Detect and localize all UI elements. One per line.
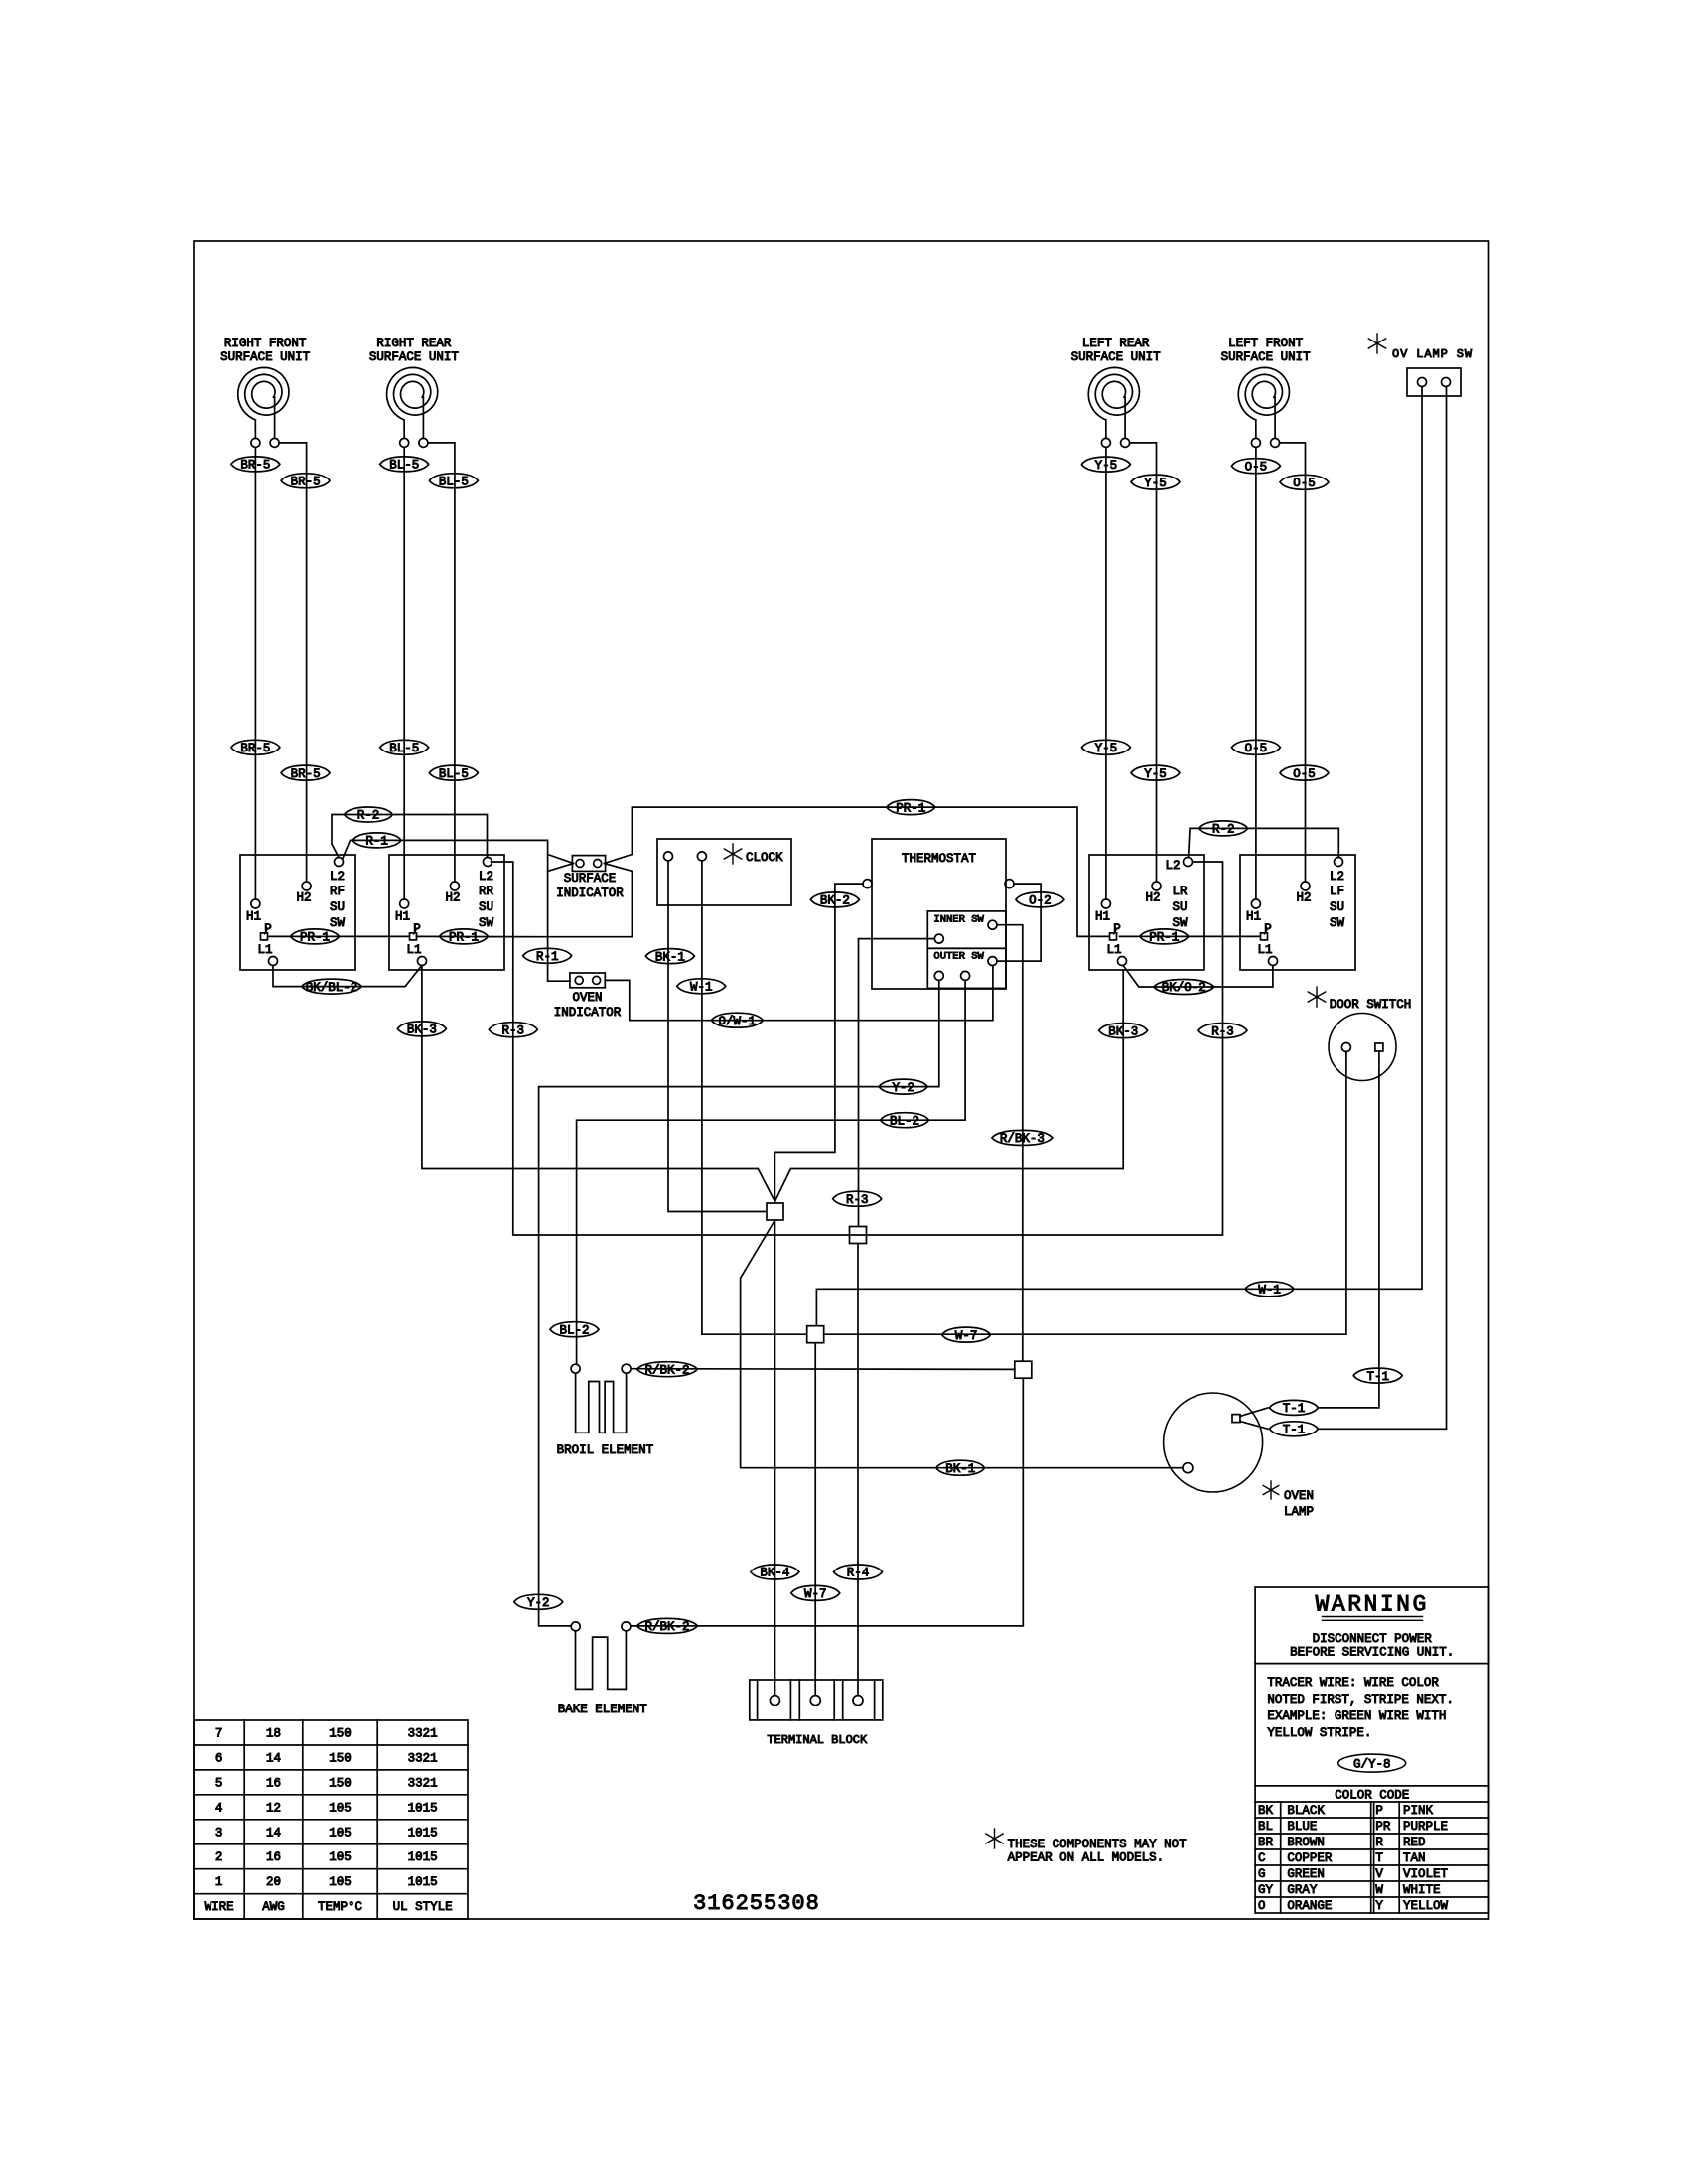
svg-text:12: 12 [266, 1801, 281, 1815]
svg-text:OVEN: OVEN [1284, 1489, 1314, 1503]
wire BK-1 (clock to junction) [668, 861, 767, 1212]
svg-text:R-2: R-2 [357, 809, 380, 823]
wire PR-1 across LR to LF [1120, 935, 1261, 937]
switch box RF [240, 855, 355, 970]
terminal L1 [1269, 957, 1278, 966]
wire R/BK-2 (bake to junction sq4) [631, 1378, 1023, 1626]
wire BR-5 left [254, 447, 256, 898]
tag O-5 [1280, 765, 1329, 780]
wire T-1 from OV LAMP SW [1320, 387, 1447, 1430]
BL-5 surface unit coil [387, 367, 438, 420]
svg-text:THERMOSTAT: THERMOSTAT [902, 852, 977, 866]
svg-text:LF: LF [1330, 885, 1344, 898]
svg-text:BLACK: BLACK [1287, 1804, 1325, 1818]
terminal H2 [302, 882, 311, 890]
svg-text:RED: RED [1403, 1836, 1426, 1849]
wire BL-5 left [403, 447, 405, 898]
svg-text:16: 16 [266, 1776, 281, 1790]
svg-text:105: 105 [329, 1801, 352, 1815]
tag Y-5 [1081, 457, 1130, 472]
svg-text:P: P [1264, 922, 1272, 936]
door switch [1329, 1014, 1396, 1081]
OV LAMP SW asterisk [1376, 334, 1378, 353]
svg-text:150: 150 [329, 1776, 352, 1790]
svg-text:SURFACE: SURFACE [564, 872, 617, 886]
svg-text:Y: Y [1375, 1899, 1383, 1913]
terminal P [410, 933, 417, 940]
svg-text:R-3: R-3 [846, 1193, 869, 1207]
oven indicator lamp [570, 973, 605, 988]
svg-text:P: P [264, 922, 272, 936]
svg-text:R/BK-2: R/BK-2 [644, 1363, 689, 1377]
svg-text:L2: L2 [1330, 870, 1344, 884]
svg-text:SURFACE UNIT: SURFACE UNIT [220, 350, 311, 364]
svg-text:H1: H1 [1095, 910, 1110, 924]
tag PR-1 [440, 929, 489, 944]
tag BL-5 [429, 474, 478, 488]
tag R-4 [834, 1565, 883, 1579]
thermostat right terminal [1005, 880, 1014, 888]
tag R-3 [833, 1191, 882, 1206]
svg-text:1: 1 [215, 1875, 223, 1889]
tag BL-2 [550, 1322, 599, 1337]
svg-text:LEFT FRONT: LEFT FRONT [1228, 337, 1304, 350]
svg-text:COLOR CODE: COLOR CODE [1335, 1789, 1409, 1803]
inner sw box [927, 911, 1006, 948]
OV LAMP SW box [1407, 368, 1461, 396]
svg-text:SW: SW [330, 916, 346, 930]
tag BR-5 [231, 457, 280, 472]
svg-text:R-2: R-2 [1212, 823, 1235, 837]
svg-text:BK-3: BK-3 [1108, 1024, 1138, 1038]
svg-text:W-1: W-1 [690, 981, 713, 995]
svg-text:BL-5: BL-5 [389, 459, 419, 473]
OV LAMP SW terminals [1418, 378, 1427, 387]
wire BL-5 right [428, 443, 455, 882]
svg-text:150: 150 [329, 1727, 352, 1741]
svg-text:TAN: TAN [1403, 1851, 1426, 1865]
terminal P [261, 933, 268, 940]
svg-text:O-5: O-5 [1293, 767, 1316, 781]
svg-text:BR: BR [1258, 1836, 1274, 1849]
coil inner lead [1124, 397, 1126, 438]
svg-text:Y-5: Y-5 [1144, 767, 1167, 781]
tag O-2 [1016, 892, 1064, 907]
coil terminals [400, 438, 409, 447]
switch box LF [1240, 855, 1355, 970]
tag Y-5 [1131, 765, 1180, 780]
O-5 surface unit coil [1238, 367, 1289, 420]
wire BK-3 right (L1 LR down to junction) [774, 970, 1123, 1202]
svg-text:GRAY: GRAY [1287, 1883, 1318, 1897]
svg-text:W: W [1375, 1883, 1383, 1897]
coil outer lead [1255, 420, 1257, 438]
svg-text:L2: L2 [479, 870, 493, 884]
switch box RR [389, 855, 504, 970]
components note [994, 1829, 996, 1848]
terminal L1 [1118, 957, 1127, 966]
tag R/BK-3 [992, 1130, 1053, 1145]
svg-text:BK-1: BK-1 [945, 1462, 975, 1476]
coil inner lead [1274, 397, 1276, 438]
outer sw box [927, 948, 1006, 988]
svg-text:T: T [1375, 1851, 1383, 1865]
svg-text:SU: SU [1330, 900, 1344, 914]
clock box [657, 839, 791, 905]
tag BK-3 [1099, 1024, 1148, 1038]
junction square 4 [1015, 1361, 1032, 1378]
svg-text:ORANGE: ORANGE [1287, 1899, 1332, 1913]
svg-text:BK/O-2: BK/O-2 [1162, 981, 1206, 995]
svg-text:EXAMPLE: GREEN WIRE WITH: EXAMPLE: GREEN WIRE WITH [1267, 1709, 1446, 1723]
svg-text:3: 3 [215, 1826, 223, 1840]
wire R-1 (L2 RF to surface indicator) [343, 840, 570, 981]
terminal L1 [418, 957, 427, 966]
wire PR-1 left (P RF to P RR to surface indicator) [268, 935, 410, 937]
tag R-2 [1199, 821, 1248, 836]
coil outer lead [403, 420, 405, 438]
wire BR-5 right [279, 443, 307, 882]
svg-text:6: 6 [215, 1752, 223, 1766]
wire W-1 (clock down to junction sq3) [702, 861, 806, 1334]
svg-text:WHITE: WHITE [1403, 1883, 1441, 1897]
svg-text:1015: 1015 [408, 1875, 438, 1889]
tag T-1 [1353, 1368, 1402, 1383]
svg-text:W-7: W-7 [955, 1329, 978, 1343]
terminal H2 [1152, 882, 1161, 890]
svg-text:Y-2: Y-2 [527, 1596, 550, 1610]
wire Y-5 left [1105, 447, 1107, 898]
wire O-5 left [1255, 447, 1257, 898]
svg-text:R-4: R-4 [847, 1567, 870, 1580]
wire BK-4 (junction sq1 to terminal block) [774, 1220, 776, 1695]
tag BL-2 [881, 1113, 929, 1128]
wire PR-1 top (surface indicator to P of LR/LF) [632, 807, 1109, 936]
svg-text:14: 14 [266, 1826, 281, 1840]
coil outer lead [1105, 420, 1107, 438]
svg-text:3321: 3321 [408, 1776, 438, 1790]
terminal H2 [1301, 882, 1310, 890]
outer sw terminals [934, 971, 943, 980]
svg-text:4: 4 [215, 1801, 223, 1815]
surface indicator lamp [572, 856, 605, 872]
terminal block [750, 1680, 883, 1720]
svg-text:TRACER WIRE: WIRE COLOR: TRACER WIRE: WIRE COLOR [1267, 1676, 1439, 1690]
svg-text:H2: H2 [1145, 891, 1160, 905]
tag R-1 [523, 948, 572, 963]
svg-text:L2: L2 [330, 870, 345, 884]
wire O/W-1 (oven indicator to outer sw) [605, 966, 993, 1021]
broil element [571, 1364, 580, 1373]
svg-text:20: 20 [266, 1875, 281, 1889]
svg-text:CLOCK: CLOCK [746, 851, 783, 865]
svg-text:COPPER: COPPER [1287, 1851, 1333, 1865]
svg-text:YELLOW STRIPE.: YELLOW STRIPE. [1267, 1726, 1371, 1740]
svg-text:L1: L1 [257, 943, 272, 957]
switch box LR [1089, 855, 1204, 970]
svg-text:5: 5 [215, 1776, 223, 1790]
svg-text:R-3: R-3 [1211, 1024, 1234, 1038]
tag BK-4 [751, 1565, 799, 1579]
coil terminals [251, 438, 260, 447]
svg-text:3321: 3321 [408, 1727, 438, 1741]
tag R-2 [345, 807, 393, 822]
svg-text:BR-5: BR-5 [291, 476, 321, 489]
wire R-2 left (L2 RF to L2 RR) [332, 815, 488, 858]
terminal L1 [269, 957, 278, 966]
terminal P [1261, 933, 1268, 940]
tag BR-5 [231, 740, 280, 754]
svg-text:16: 16 [266, 1850, 281, 1864]
wire R-3 (L2 RR down and across to L2 LR) [492, 862, 1223, 1235]
tag Y-5 [1131, 475, 1180, 489]
junction square 2 [850, 1227, 867, 1244]
wire W-1 from OV LAMP SW [816, 387, 1422, 1326]
terminal L2 [1335, 858, 1343, 867]
tag O-5 [1231, 459, 1280, 474]
svg-text:2: 2 [215, 1850, 223, 1864]
wire T-1 (door switch down to oven lamp) [1320, 1051, 1379, 1408]
wire R-4 (junction sq2 to terminal block) [857, 1244, 859, 1695]
terminal H1 [1101, 899, 1110, 908]
svg-text:WIRE: WIRE [205, 1900, 234, 1914]
tag BK-1 [936, 1460, 985, 1475]
svg-text:150: 150 [329, 1752, 352, 1766]
wire BK/BL-2 (L1 RF to L1 RR) [273, 966, 422, 987]
svg-text:PR-1: PR-1 [300, 931, 330, 945]
svg-text:PR-1: PR-1 [896, 801, 925, 815]
svg-text:PR-1: PR-1 [449, 931, 479, 945]
svg-text:R-1: R-1 [536, 950, 559, 964]
svg-text:LEFT REAR: LEFT REAR [1082, 337, 1150, 350]
tag BR-5 [281, 765, 330, 780]
terminal H1 [1251, 899, 1260, 908]
tag T-1 [1270, 1422, 1319, 1436]
tag R-1 [352, 833, 401, 848]
tag G/Y-8 [1338, 1754, 1406, 1772]
svg-text:105: 105 [329, 1826, 352, 1840]
svg-text:BROWN: BROWN [1287, 1836, 1325, 1849]
svg-text:INDICATOR: INDICATOR [556, 887, 624, 900]
svg-text:LR: LR [1172, 885, 1188, 898]
thermostat box [872, 839, 1006, 989]
svg-text:BL-2: BL-2 [559, 1323, 589, 1337]
svg-text:RR: RR [479, 885, 494, 898]
thermostat left terminal [863, 880, 872, 888]
wire BK-2 (thermostat to junction sq1) [774, 884, 863, 1203]
svg-text:T-1: T-1 [1283, 1402, 1306, 1416]
svg-text:BK/BL-2: BK/BL-2 [306, 981, 358, 995]
coil terminals [1101, 438, 1110, 447]
tag BK-2 [810, 892, 859, 907]
svg-text:O: O [1258, 1899, 1266, 1913]
svg-text:SURFACE UNIT: SURFACE UNIT [1221, 350, 1312, 364]
svg-text:BROIL ELEMENT: BROIL ELEMENT [557, 1443, 654, 1457]
color code table [1255, 1817, 1488, 1819]
svg-text:BAKE ELEMENT: BAKE ELEMENT [558, 1703, 648, 1716]
tag W-7 [942, 1327, 991, 1342]
terminal H1 [251, 899, 260, 908]
BR-5 surface unit coil [238, 367, 289, 420]
svg-text:PURPLE: PURPLE [1403, 1820, 1448, 1834]
svg-text:UL STYLE: UL STYLE [393, 1900, 453, 1914]
coil inner lead [422, 397, 424, 438]
svg-text:SURFACE UNIT: SURFACE UNIT [369, 350, 460, 364]
wire BL-2 (outer sw middle to broil element) [577, 980, 966, 1363]
terminal H1 [400, 899, 409, 908]
svg-text:W-7: W-7 [804, 1587, 827, 1601]
svg-text:WARNING: WARNING [1316, 1592, 1429, 1618]
svg-text:BL-5: BL-5 [439, 767, 469, 781]
svg-text:BL-5: BL-5 [389, 742, 419, 755]
wire R/BK-3 (inner sw right down to junction sq4) [997, 925, 1023, 1361]
junction square 3 [807, 1326, 824, 1343]
svg-text:L1: L1 [1257, 943, 1272, 957]
wire BK/O-2 (L1 LR to L1 LF) [1123, 966, 1273, 988]
svg-text:R-3: R-3 [502, 1024, 525, 1037]
svg-text:BK-3: BK-3 [407, 1024, 437, 1037]
svg-text:BK: BK [1258, 1804, 1274, 1818]
Y-5 surface unit coil [1088, 367, 1139, 420]
wire BK-1 (junction sq1 to oven lamp) [741, 1220, 1183, 1468]
svg-text:H1: H1 [246, 910, 261, 924]
tag Y-2 [879, 1079, 927, 1094]
svg-text:GREEN: GREEN [1287, 1867, 1325, 1881]
svg-text:BR-5: BR-5 [240, 459, 270, 473]
svg-text:BL: BL [1258, 1820, 1273, 1834]
svg-text:BK-4: BK-4 [760, 1567, 789, 1580]
svg-text:105: 105 [329, 1850, 352, 1864]
wire R (inner sw left, down to junction sq2) [859, 939, 935, 1227]
tag BL-5 [380, 740, 429, 754]
svg-text:1015: 1015 [408, 1801, 438, 1815]
svg-text:LAMP: LAMP [1284, 1505, 1314, 1519]
tag R-3 [489, 1023, 537, 1037]
svg-text:H2: H2 [1296, 891, 1311, 905]
wire R/BK-2 (broil to junction sq4) [631, 1368, 1015, 1371]
tag BR-5 [281, 474, 330, 488]
svg-text:THESE COMPONENTS MAY NOT: THESE COMPONENTS MAY NOT [1008, 1838, 1188, 1851]
svg-text:V: V [1375, 1867, 1383, 1881]
svg-text:BR-5: BR-5 [291, 767, 321, 781]
tag R/BK-2 [637, 1618, 698, 1633]
tag R/BK-2 [637, 1362, 698, 1377]
svg-text:R/BK-2: R/BK-2 [644, 1620, 689, 1634]
svg-text:316255308: 316255308 [693, 1891, 820, 1916]
tag R-3 [1198, 1024, 1247, 1038]
svg-text:H2: H2 [296, 891, 311, 905]
svg-text:L1: L1 [1106, 943, 1121, 957]
svg-text:BL-5: BL-5 [439, 476, 469, 489]
wire Y-2 (outer sw left to bake element) [539, 980, 939, 1626]
wire W-7 (door switch to junction sq3 and terminal block) [824, 1052, 1346, 1334]
tag BK-1 [645, 949, 694, 964]
bake element [571, 1622, 580, 1631]
tag T-1 [1270, 1400, 1319, 1415]
svg-text:Y-5: Y-5 [1095, 459, 1118, 473]
svg-text:R/BK-3: R/BK-3 [1000, 1132, 1045, 1146]
svg-text:C: C [1258, 1851, 1266, 1865]
svg-text:PR: PR [1375, 1820, 1391, 1834]
terminal L2 [1184, 858, 1193, 867]
svg-text:H2: H2 [445, 891, 460, 905]
coil inner lead [274, 397, 276, 438]
svg-text:BK-1: BK-1 [655, 950, 685, 964]
svg-text:TERMINAL BLOCK: TERMINAL BLOCK [767, 1733, 868, 1747]
tag Y-5 [1081, 740, 1130, 754]
svg-text:RIGHT REAR: RIGHT REAR [376, 337, 452, 350]
wire gauge table [194, 1720, 468, 1919]
svg-text:OV LAMP SW: OV LAMP SW [1392, 347, 1473, 361]
svg-text:PINK: PINK [1403, 1804, 1434, 1818]
svg-text:AWG: AWG [262, 1900, 285, 1914]
svg-text:BK-2: BK-2 [820, 894, 850, 908]
svg-text:SU: SU [479, 900, 493, 914]
svg-text:SU: SU [1172, 900, 1187, 914]
svg-text:VIOLET: VIOLET [1403, 1867, 1449, 1881]
tag PR-1 [1140, 929, 1189, 944]
svg-text:YELLOW: YELLOW [1403, 1899, 1449, 1913]
svg-text:O-5: O-5 [1293, 477, 1316, 490]
page border frame [194, 241, 1489, 1919]
svg-text:O/W-1: O/W-1 [719, 1015, 757, 1028]
wire BK-3 left (L1 RR down to junction) [422, 966, 775, 1202]
svg-text:BR-5: BR-5 [240, 742, 270, 755]
inner sw terminals [934, 934, 943, 943]
svg-text:Y-2: Y-2 [892, 1081, 914, 1095]
svg-text:BEFORE SERVICING UNIT.: BEFORE SERVICING UNIT. [1290, 1646, 1454, 1660]
svg-text:SURFACE UNIT: SURFACE UNIT [1071, 350, 1162, 364]
svg-text:O-5: O-5 [1245, 742, 1268, 755]
junction square 1 [767, 1203, 783, 1220]
tag BK/O-2 [1154, 980, 1214, 995]
svg-text:R-1: R-1 [365, 835, 388, 849]
svg-text:APPEAR ON ALL MODELS.: APPEAR ON ALL MODELS. [1008, 1851, 1165, 1865]
svg-text:SU: SU [330, 900, 345, 914]
svg-text:NOTED FIRST, STRIPE NEXT.: NOTED FIRST, STRIPE NEXT. [1267, 1693, 1454, 1706]
tag O-5 [1280, 475, 1329, 489]
svg-text:7: 7 [215, 1727, 223, 1741]
svg-text:SW: SW [479, 916, 494, 930]
tag BL-5 [429, 765, 478, 780]
svg-text:DOOR SWITCH: DOOR SWITCH [1330, 998, 1412, 1012]
tag BL-5 [380, 457, 429, 472]
svg-text:DISCONNECT POWER: DISCONNECT POWER [1313, 1632, 1433, 1646]
tag PR-1 [291, 929, 340, 944]
terminal P [1110, 933, 1117, 940]
wire R-2 right (L2 LR to L2 LF) [1189, 828, 1339, 857]
terminal H2 [450, 882, 459, 890]
svg-text:TEMP°C: TEMP°C [318, 1900, 362, 1914]
svg-text:1015: 1015 [408, 1826, 438, 1840]
svg-text:18: 18 [266, 1727, 281, 1741]
svg-text:105: 105 [329, 1875, 352, 1889]
svg-text:L2: L2 [1165, 859, 1180, 873]
svg-text:3321: 3321 [408, 1752, 438, 1766]
svg-text:GY: GY [1258, 1883, 1274, 1897]
svg-text:SW: SW [1172, 916, 1188, 930]
svg-text:PR-1: PR-1 [1149, 931, 1179, 945]
svg-text:H1: H1 [395, 910, 410, 924]
tag BK-3 [397, 1022, 446, 1036]
svg-text:T-1: T-1 [1283, 1424, 1306, 1437]
tag W-7 [791, 1585, 840, 1600]
tag W-1 [677, 979, 726, 994]
tag PR-1 [887, 800, 935, 815]
svg-text:O-2: O-2 [1029, 894, 1052, 908]
tag O/W-1 [711, 1013, 763, 1027]
wire Y-5 right [1130, 443, 1157, 882]
